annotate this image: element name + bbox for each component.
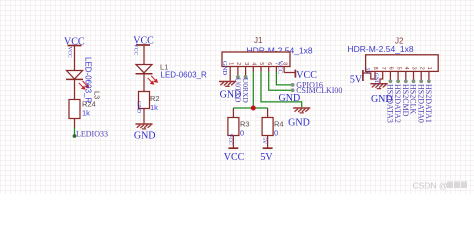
svg-text:J1: J1 [254, 36, 263, 45]
svg-text:CSDN @: CSDN @ [413, 181, 448, 191]
svg-text:U0RXD: U0RXD [241, 78, 250, 104]
svg-text:3: 3 [411, 67, 417, 70]
svg-text:1k: 1k [82, 108, 90, 117]
svg-text:0: 0 [274, 129, 278, 138]
svg-text:VCC: VCC [133, 44, 139, 56]
svg-text:HS2CMD: HS2CMD [401, 84, 410, 117]
svg-text:GND: GND [136, 101, 142, 113]
svg-text:R3: R3 [240, 120, 250, 129]
svg-text:6: 6 [388, 67, 394, 70]
svg-text:HS2DATA3: HS2DATA3 [386, 84, 395, 123]
svg-text:2: 2 [235, 62, 241, 65]
svg-text:VCC: VCC [224, 152, 245, 163]
svg-text:GND: GND [279, 93, 301, 104]
svg-text:5: 5 [258, 62, 264, 65]
svg-text:VCC: VCC [277, 61, 284, 74]
svg-text:GND: GND [288, 118, 310, 129]
svg-text:5V: 5V [350, 74, 363, 85]
svg-text:R4: R4 [274, 120, 284, 129]
svg-text:R24: R24 [82, 100, 96, 109]
svg-text:CSIMCLKI00: CSIMCLKI00 [296, 86, 342, 95]
svg-text:L3: L3 [92, 91, 101, 99]
svg-text:4: 4 [251, 62, 257, 65]
svg-text:3: 3 [243, 62, 249, 65]
svg-text:4: 4 [403, 67, 409, 70]
svg-text:5V: 5V [261, 137, 267, 144]
svg-text:8: 8 [372, 67, 378, 70]
svg-text:HS2DATA1: HS2DATA1 [424, 84, 433, 123]
svg-text:R2: R2 [150, 94, 160, 103]
svg-text:5V: 5V [260, 152, 273, 163]
svg-text:HS2DATA2: HS2DATA2 [393, 84, 402, 123]
svg-text:VCC: VCC [67, 46, 73, 58]
svg-text:VCC: VCC [227, 134, 233, 146]
svg-text:1: 1 [426, 67, 432, 70]
svg-text:U0TXD: U0TXD [234, 78, 243, 103]
svg-text:HS2CLK: HS2CLK [409, 84, 418, 114]
svg-text:0: 0 [240, 129, 244, 138]
svg-text:GND: GND [134, 130, 156, 141]
svg-text:GND: GND [373, 73, 379, 85]
svg-text:2: 2 [418, 67, 424, 70]
svg-text:7: 7 [380, 67, 386, 70]
svg-text:LEDIO33: LEDIO33 [76, 129, 108, 138]
svg-text:HS2DATA0: HS2DATA0 [416, 84, 425, 123]
svg-text:5V: 5V [364, 68, 370, 75]
svg-text:LED-0603_R: LED-0603_R [161, 70, 207, 79]
svg-text:HDR-M-2.54_1x8: HDR-M-2.54_1x8 [348, 44, 414, 54]
svg-text:GND: GND [221, 61, 228, 75]
svg-text:5: 5 [395, 67, 401, 70]
svg-text:1k: 1k [150, 103, 158, 112]
svg-text:6: 6 [266, 62, 272, 65]
svg-text:LED-0603_R: LED-0603_R [84, 57, 93, 103]
